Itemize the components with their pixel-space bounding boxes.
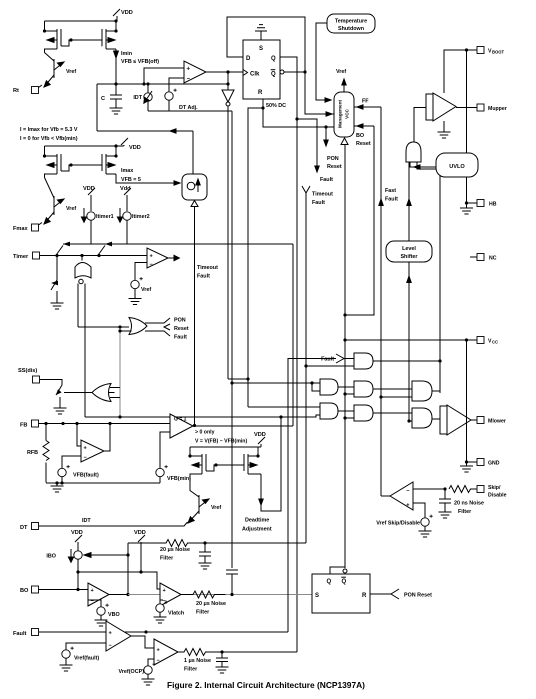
wire U11 output bbox=[373, 360, 440, 362]
svg-text:−: − bbox=[187, 77, 191, 83]
resistor RFB bbox=[27, 424, 49, 483]
comparator U17 (BO) bbox=[88, 583, 109, 606]
wire AND4 input2 from fast fault x381 bbox=[381, 396, 412, 398]
wire DT bottom line y=111 bbox=[148, 110, 232, 112]
svg-text:Filter: Filter bbox=[184, 667, 198, 673]
svg-text:BOOT: BOOT bbox=[492, 50, 505, 55]
ground SS switch bbox=[54, 408, 67, 414]
svg-text:Temperature: Temperature bbox=[335, 19, 367, 25]
wire gate staple mirror2 bbox=[61, 163, 102, 171]
wire DT line vertical x=232 bbox=[231, 111, 233, 568]
comparator U20 (OCP) bbox=[154, 639, 178, 665]
svg-text:I = 0 for Vfb < Vfb(min): I = 0 for Vfb < Vfb(min) bbox=[20, 136, 78, 142]
wire D = Qbar loop bbox=[227, 17, 305, 72]
pin VBOOT bbox=[477, 47, 505, 55]
VDD tick Itimer2 bbox=[120, 186, 131, 211]
text PON Reset Fault bbox=[174, 318, 189, 341]
current source IBO bbox=[46, 549, 82, 590]
node dots on timer line bbox=[55, 254, 100, 257]
svg-text:Disable: Disable bbox=[488, 493, 507, 499]
ground at HB bbox=[460, 203, 473, 214]
svg-text:VFB ≤ VFB(off): VFB ≤ VFB(off) bbox=[121, 59, 159, 65]
wire U1 minus input to DT Adj bbox=[169, 78, 184, 92]
node dot x381 r397 bbox=[379, 395, 382, 398]
voltage source VBO bbox=[97, 604, 120, 620]
wire Fault branch to arrow bbox=[297, 119, 333, 183]
svg-text:I = Imax for Vfb = 5.3 V: I = Imax for Vfb = 5.3 V bbox=[20, 127, 78, 133]
ground at GND pin bbox=[460, 462, 473, 472]
op-amp U8 (FB fault) bbox=[81, 440, 104, 462]
block Level Shifter bbox=[386, 241, 432, 262]
wire AND2a out to AND3a bbox=[338, 386, 354, 388]
svg-text:PON: PON bbox=[327, 156, 339, 162]
ground skip filter bbox=[439, 512, 452, 518]
node dot skip filter bbox=[443, 487, 446, 490]
node dot x345 r418 bbox=[343, 416, 346, 419]
text 20 ns Noise Filter bbox=[454, 501, 484, 516]
voltage source Vref(OCP) bbox=[119, 663, 156, 679]
wire grey latch S line bbox=[128, 594, 312, 596]
wire U1 output to Clk bbox=[206, 71, 243, 73]
wire PON Reset arrow from R line bbox=[324, 127, 342, 170]
AND gate U14 bbox=[412, 381, 432, 401]
wire skip minus input / filter bbox=[413, 488, 446, 490]
ground timer branch bbox=[51, 303, 64, 309]
AND gate U12a bbox=[320, 379, 338, 395]
text 20us Noise Filter #2 bbox=[196, 601, 226, 616]
arrowhead Qbar into block bbox=[326, 112, 332, 116]
wire jog AND2a input2 bbox=[312, 383, 320, 391]
VDD supply tick (mirror 1) bbox=[113, 9, 133, 16]
svg-text:Q: Q bbox=[271, 56, 276, 62]
wire NOR out to OR input y=327 bbox=[78, 326, 129, 328]
svg-text:PON Reset: PON Reset bbox=[404, 593, 432, 599]
wire temp shutdown to VCC block bbox=[316, 23, 331, 102]
wire U18 output / resistor 20us #2 bbox=[181, 591, 226, 598]
pin Fmax bbox=[13, 223, 42, 233]
wire SS gate output to switch bbox=[64, 392, 92, 394]
wire gate staple mirror1 bbox=[61, 38, 102, 46]
svg-text:FF: FF bbox=[362, 99, 369, 105]
node dot 1us cap bbox=[220, 650, 223, 653]
svg-text:Vref Skip/Disable: Vref Skip/Disable bbox=[376, 521, 420, 527]
text 1us Noise Filter bbox=[184, 658, 211, 673]
svg-text:NC: NC bbox=[489, 256, 497, 262]
svg-text:Timer: Timer bbox=[13, 254, 29, 260]
svg-text:Fault: Fault bbox=[320, 177, 333, 183]
AND gate U15 bbox=[412, 408, 432, 428]
voltage source Vref Skip/Disable bbox=[376, 515, 432, 531]
inverted ground on S input bbox=[255, 25, 267, 40]
wire inverted clock vertical x=228 bbox=[227, 106, 229, 379]
svg-text:VFB = 5: VFB = 5 bbox=[121, 177, 141, 183]
node dot bo reset left end bbox=[343, 313, 346, 316]
node dot x306 bbox=[304, 364, 307, 367]
wire x228 to x248 jog bbox=[228, 378, 248, 380]
wire Q vertical down long bbox=[296, 119, 298, 652]
bubble on Qbar output bbox=[280, 70, 284, 74]
wire fault line up x=288 bbox=[288, 359, 336, 633]
svg-text:Fault: Fault bbox=[13, 631, 26, 637]
resistor skip (horizontal) bbox=[449, 486, 477, 493]
svg-text:R: R bbox=[362, 593, 367, 599]
svg-text:BO: BO bbox=[20, 588, 29, 594]
arrowheads on control line bbox=[63, 242, 112, 247]
wire latch-Qbar vertical x=345 (VCC block bottom) bbox=[344, 145, 346, 569]
svg-text:Reset: Reset bbox=[356, 141, 371, 147]
svg-text:S: S bbox=[259, 46, 263, 52]
svg-text:VFB(min): VFB(min) bbox=[167, 476, 191, 482]
pin DT bbox=[20, 518, 188, 531]
svg-text:20 μs Noise: 20 μs Noise bbox=[196, 601, 226, 607]
wire deadtime adj loop bbox=[259, 417, 281, 511]
transistor M2a (PMOS diode-connected) bbox=[45, 146, 62, 178]
wire VDD rail mirror3 bbox=[190, 446, 261, 448]
capacitor 1us filter bbox=[216, 652, 228, 667]
wire y=131 feedback line with left arrow bbox=[97, 129, 193, 133]
capacitor skip filter bbox=[439, 489, 451, 512]
wire gate staple mirror3 bbox=[206, 463, 244, 471]
wire U11 input2 from x306 bbox=[306, 365, 354, 367]
wire U8 minus to VFB(fault) bbox=[62, 456, 81, 468]
node dot clk/inverter bbox=[226, 70, 229, 73]
ground VBO bbox=[95, 620, 108, 626]
wire Imax output to V-I box bbox=[116, 168, 180, 185]
wire left branch down to switch S3 bbox=[56, 256, 58, 281]
svg-text:20 μs Noise: 20 μs Noise bbox=[160, 547, 190, 553]
svg-text:VDD: VDD bbox=[121, 10, 133, 16]
wires U7 inputs from grey line bbox=[110, 388, 120, 398]
flip-flop U3 box bbox=[243, 40, 280, 99]
svg-text:IDT: IDT bbox=[133, 95, 142, 101]
svg-text:BO: BO bbox=[356, 133, 364, 139]
svg-text:Imin: Imin bbox=[121, 51, 132, 57]
wire AND2b out to AND3b bbox=[338, 410, 354, 412]
AND gate U10 (UVLO gating, vertical) bbox=[406, 142, 421, 162]
node dot GND bbox=[465, 460, 468, 463]
svg-text:VDD: VDD bbox=[129, 145, 141, 151]
svg-text:C: C bbox=[101, 96, 105, 102]
pin Rt bbox=[13, 85, 42, 94]
wire U17 minus to VBO bbox=[88, 600, 101, 607]
svg-text:VDD: VDD bbox=[71, 530, 83, 536]
wire Vcc-GND vertical x=466 bbox=[466, 340, 468, 462]
block UVLO bbox=[436, 153, 478, 177]
VDD supply tick (mirror 2) bbox=[121, 138, 141, 151]
svg-text:VBO: VBO bbox=[108, 612, 120, 618]
svg-text:UVLO: UVLO bbox=[449, 164, 465, 170]
transistor M3b (PMOS) bbox=[244, 447, 261, 474]
svg-text:Fast: Fast bbox=[385, 188, 396, 194]
node dots grey bbox=[118, 325, 121, 418]
wire Vref arrow above VCC block bbox=[336, 69, 346, 92]
svg-text:D: D bbox=[246, 56, 251, 62]
node dots rail m1 bbox=[43, 19, 118, 32]
svg-text:Q: Q bbox=[271, 72, 276, 78]
svg-text:Timeout: Timeout bbox=[197, 265, 218, 271]
pin NC bbox=[470, 254, 497, 262]
block Temperature Shutdown bbox=[327, 14, 375, 33]
wire IBO to Vlatch plus y=572 bbox=[78, 572, 160, 589]
node dot x409 r421 bbox=[407, 419, 410, 422]
comparator U1 (clock comparator) bbox=[184, 61, 206, 83]
svg-text:FB: FB bbox=[20, 423, 27, 429]
svg-text:Mlower: Mlower bbox=[488, 419, 506, 425]
svg-text:GND: GND bbox=[488, 461, 500, 467]
wire AND5 input2 from level shifter bbox=[409, 420, 412, 422]
pin Vcc bbox=[345, 337, 498, 345]
svg-text:Vref: Vref bbox=[211, 505, 221, 511]
wire level shifter vertical x=409 bbox=[407, 162, 411, 421]
svg-text:Management: Management bbox=[338, 99, 343, 128]
wire left rail x=97 down to V-I converter line bbox=[96, 84, 98, 131]
svg-text:Vlatch: Vlatch bbox=[168, 611, 184, 617]
transistor M2b (PMOS) bbox=[102, 146, 116, 174]
pin GND bbox=[467, 459, 500, 467]
text Deadtime Adjustment bbox=[242, 518, 272, 533]
voltage source Vref(fault) bbox=[62, 647, 100, 665]
svg-text:G = 1: G = 1 bbox=[174, 417, 187, 423]
svg-text:IBO: IBO bbox=[46, 554, 56, 560]
wire VDD rail mirror1 bbox=[45, 16, 118, 21]
ground FB section bbox=[51, 483, 64, 492]
wire U5 minus to Vref source bbox=[135, 263, 147, 281]
wire timeout-fault vertical x=306 bbox=[305, 193, 307, 543]
svg-text:Q: Q bbox=[342, 579, 347, 585]
node dot u17 out bbox=[126, 593, 129, 596]
output fork PON Reset Fault bbox=[145, 318, 170, 336]
inverter U2 (clock inverter, points down) bbox=[222, 72, 234, 106]
AND gate U13a bbox=[354, 381, 373, 397]
break symbol timeout fault bbox=[302, 186, 333, 206]
node dots y572 bbox=[76, 570, 142, 573]
capacitor DT coupling to S bbox=[226, 570, 238, 595]
pin SS(dis) bbox=[18, 368, 62, 385]
svg-text:1 μs Noise: 1 μs Noise bbox=[184, 658, 211, 664]
ground under Mupper driver bbox=[438, 121, 451, 138]
svg-text:Vref: Vref bbox=[66, 206, 76, 212]
wire Qbar down into VCC management bbox=[305, 72, 334, 114]
wire skip plus to Vref bbox=[413, 503, 425, 518]
bubble on latch Qbar bbox=[343, 569, 347, 573]
node dot fault line bbox=[144, 630, 147, 633]
svg-text:Fault: Fault bbox=[385, 197, 398, 203]
svg-text:VDD: VDD bbox=[254, 432, 266, 438]
comparator U16 (skip, points left) bbox=[390, 482, 413, 510]
transistor Q3 (NPN deadtime) bbox=[188, 478, 221, 524]
driver A2 (Mlower) bbox=[440, 405, 471, 435]
svg-text:S: S bbox=[315, 593, 319, 599]
node dot BO line bbox=[76, 588, 79, 591]
wire Q output to vertical bbox=[280, 57, 297, 119]
ground Vref(fault) bbox=[60, 665, 73, 671]
text current law annotation bbox=[20, 127, 78, 142]
block VCC Management bbox=[334, 92, 354, 137]
NOR gate U4 (timer, vertical) bbox=[75, 256, 91, 284]
ground 1us filter bbox=[216, 667, 229, 673]
node dot x128 y555 bbox=[126, 553, 129, 556]
wire VDD2 tick bbox=[134, 530, 146, 572]
svg-text:Vref: Vref bbox=[336, 69, 346, 75]
node dot 50% branch bbox=[261, 106, 264, 109]
node dot VBOOT bbox=[465, 48, 468, 51]
wire BO filter branch x=128 bbox=[127, 543, 129, 594]
svg-text:Figure 2. Internal Circuit Arc: Figure 2. Internal Circuit Architecture … bbox=[167, 680, 365, 690]
switch SS with arrow bbox=[56, 385, 62, 408]
svg-text:R: R bbox=[258, 90, 263, 96]
node dots y483 bbox=[55, 481, 63, 484]
pin Timer bbox=[13, 252, 147, 260]
capacitor C bbox=[101, 84, 123, 114]
node dot filter cap bbox=[203, 541, 206, 544]
transistor Q1 (NPN, Vref base) bbox=[44, 53, 76, 88]
wire U1 plus input bbox=[144, 68, 184, 84]
svg-text:PON: PON bbox=[174, 318, 186, 324]
svg-text:SS(dis): SS(dis) bbox=[18, 368, 37, 374]
input triangle under VCC block bbox=[341, 138, 348, 145]
wire FB to op-amp plus bbox=[77, 424, 81, 447]
svg-text:DT Adj.: DT Adj. bbox=[179, 105, 198, 111]
comparator U18 (Vlatch) bbox=[160, 583, 181, 606]
svg-text:Level: Level bbox=[402, 246, 416, 252]
svg-text:DT: DT bbox=[20, 525, 28, 531]
wire AND4 out up x=440 bbox=[432, 390, 440, 392]
wire into V-I box from top bbox=[192, 131, 194, 174]
comparator U5 (timeout) bbox=[147, 248, 168, 268]
switch S3 with arrow bbox=[51, 280, 58, 303]
pin FB bbox=[20, 420, 170, 429]
switch S2 (timer) bbox=[99, 246, 106, 255]
svg-text:Fault: Fault bbox=[174, 335, 187, 341]
svg-text:Vref(OCP): Vref(OCP) bbox=[119, 669, 145, 675]
voltage source Vref (timeout) bbox=[131, 277, 152, 299]
wire SS loop bottom y=417 bbox=[85, 415, 320, 417]
text 20us noise filter (top) bbox=[160, 547, 190, 562]
svg-text:Itimer1: Itimer1 bbox=[96, 214, 114, 220]
wire Mupper output bbox=[456, 107, 477, 109]
ground Vref timeout bbox=[129, 299, 142, 305]
node dot Q branch bbox=[295, 117, 298, 120]
transistor Q2 (NPN, Vref base) bbox=[44, 178, 76, 225]
svg-text:VDD: VDD bbox=[134, 530, 146, 536]
node dots Vcc line bbox=[343, 338, 468, 341]
svg-text:Fmax: Fmax bbox=[13, 226, 29, 232]
svg-text:Shutdown: Shutdown bbox=[338, 26, 364, 32]
node dots rail m2 bbox=[43, 144, 118, 157]
svg-text:Vdd: Vdd bbox=[120, 186, 131, 192]
wire FF input from right bbox=[354, 99, 381, 110]
grey wire x=120 bbox=[119, 327, 121, 417]
node dots rail m3 bbox=[188, 454, 259, 457]
wire gate input 2 jog to x=440 bbox=[417, 162, 440, 393]
pin Fault bbox=[13, 629, 288, 638]
svg-text:Deadtime: Deadtime bbox=[245, 518, 269, 524]
wires NOR inputs down bbox=[78, 284, 85, 418]
transistor M1a (PMOS diode-connected) bbox=[45, 21, 62, 53]
capacitor BO filter bbox=[199, 543, 211, 563]
svg-text:VCC: VCC bbox=[345, 108, 350, 118]
pin HB bbox=[467, 200, 497, 208]
voltage source VFB(fault) bbox=[58, 465, 99, 483]
svg-text:Q: Q bbox=[327, 579, 332, 585]
wire U20 minus to Vref(OCP) bbox=[148, 659, 154, 666]
wire x=293 buffer out up to timer line bbox=[292, 244, 294, 426]
svg-text:RFB: RFB bbox=[27, 450, 38, 456]
node dots S line bbox=[230, 593, 233, 596]
node dots FB line bbox=[44, 422, 111, 425]
latch U21 box bbox=[312, 574, 370, 613]
pin Mupper bbox=[477, 104, 507, 112]
pin Mlower bbox=[477, 417, 506, 425]
svg-text:Fault: Fault bbox=[321, 357, 334, 363]
current source Itimer2 bbox=[120, 208, 150, 244]
wire Qbar to loop junction bbox=[284, 71, 305, 73]
AND gate U11 (fault) bbox=[354, 353, 373, 369]
svg-text:Fault: Fault bbox=[312, 200, 325, 206]
node dot jog bbox=[246, 377, 249, 380]
svg-text:Reset: Reset bbox=[174, 326, 189, 332]
wire U19 minus to Vref(fault) bbox=[66, 643, 106, 650]
wire IBO node to filter branch with arrow bbox=[84, 553, 128, 558]
svg-text:Filter: Filter bbox=[196, 610, 210, 616]
current source IDT bbox=[133, 84, 152, 111]
svg-text:+: + bbox=[187, 67, 191, 73]
node dot HB bbox=[465, 201, 468, 204]
wire UVLO to gate input bbox=[410, 162, 436, 169]
svg-text:Vref: Vref bbox=[66, 69, 76, 75]
input chevron Fault bbox=[321, 354, 354, 363]
AND gate U13b bbox=[354, 405, 373, 421]
wire 50%DC line from box bottom to x=248 bbox=[248, 108, 263, 407]
wire common bottom y=483 bbox=[46, 482, 160, 484]
svg-text:CC: CC bbox=[492, 340, 498, 345]
node dot x345 r394 bbox=[343, 392, 346, 395]
ground vref skip bbox=[419, 531, 432, 537]
wire BO Reset input from right bbox=[354, 124, 374, 147]
driver A1 (Mupper) bbox=[426, 93, 456, 121]
resistor 20us BO bbox=[128, 540, 306, 547]
VDD tick Itimer1 bbox=[83, 186, 95, 211]
node dot R branch PON bbox=[324, 125, 327, 128]
wire BO Reset vertical x=374 bbox=[345, 126, 374, 315]
wire node line y=84 bbox=[97, 83, 228, 85]
svg-text:20 ns Noise: 20 ns Noise bbox=[454, 501, 484, 507]
buffer U9 G=1 bbox=[170, 414, 193, 438]
svg-text:> 0 only: > 0 only bbox=[195, 430, 215, 436]
wire Q hook on latch top bbox=[330, 567, 345, 574]
pin BO bbox=[20, 586, 88, 594]
wire R input chevron PON Reset bbox=[370, 589, 432, 599]
svg-text:Skip/: Skip/ bbox=[488, 485, 501, 491]
ground Vref(OCP) bbox=[142, 679, 155, 685]
svg-text:Fault: Fault bbox=[197, 274, 210, 280]
svg-text:Shifter: Shifter bbox=[400, 254, 418, 260]
wire U20 output / 1us resistor bbox=[178, 649, 297, 656]
node dots on y=84 bbox=[114, 82, 229, 85]
wire V-I output down to FB buffer line bbox=[194, 207, 196, 426]
current source Itimer1 bbox=[84, 208, 114, 244]
node dots row383 bbox=[230, 381, 313, 384]
transistor M3a (PMOS diode) bbox=[190, 447, 206, 478]
ground BO filter cap bbox=[199, 563, 212, 569]
svg-text:Reset: Reset bbox=[327, 164, 342, 170]
pin Skip/Disable bbox=[477, 485, 507, 499]
svg-text:Clk: Clk bbox=[250, 72, 260, 78]
VDD tick IBO bbox=[71, 530, 83, 551]
node dot V-I stem bbox=[193, 424, 196, 427]
svg-text:Vref: Vref bbox=[141, 287, 151, 293]
comparator U19 (fault) bbox=[106, 621, 131, 651]
